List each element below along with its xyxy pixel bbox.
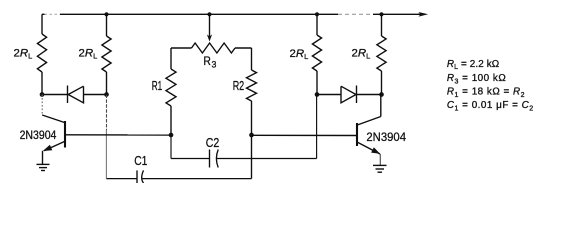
svg-text:RL = 2.2 kΩ: RL = 2.2 kΩ	[447, 59, 499, 71]
svg-text:3: 3	[212, 60, 217, 70]
svg-text:R1: R1	[152, 79, 163, 93]
svg-text:R: R	[203, 54, 211, 68]
svg-text:C2: C2	[206, 136, 220, 150]
svg-text:2RL: 2RL	[352, 48, 371, 61]
svg-text:2RL: 2RL	[290, 48, 309, 61]
svg-text:R2: R2	[233, 79, 245, 93]
svg-text:C1 = 0.01 μF = C2: C1 = 0.01 μF = C2	[447, 100, 534, 112]
svg-text:2RL: 2RL	[14, 48, 33, 61]
svg-text:2N3904: 2N3904	[366, 130, 406, 144]
svg-text:2RL: 2RL	[79, 48, 98, 61]
svg-text:R3 = 100 kΩ: R3 = 100 kΩ	[447, 73, 506, 85]
svg-text:2N3904: 2N3904	[20, 128, 57, 142]
svg-text:C1: C1	[134, 153, 147, 168]
svg-text:R1 = 18 kΩ = R2: R1 = 18 kΩ = R2	[447, 87, 525, 99]
